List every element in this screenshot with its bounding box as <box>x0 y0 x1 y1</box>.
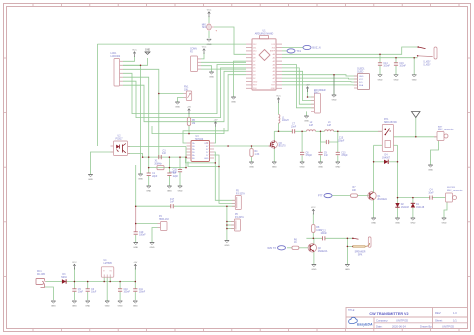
svg-text:D4: D4 <box>253 71 255 73</box>
svg-text:GND: GND <box>378 79 383 81</box>
svg-text:C12: C12 <box>322 230 327 232</box>
capacitor C14 <box>378 63 391 68</box>
svg-text:GND: GND <box>118 306 123 308</box>
wire C6 gnd <box>87 292 89 300</box>
connector DC1 power jack <box>36 271 46 287</box>
svg-text:D2: D2 <box>253 78 255 80</box>
svg-text:D5: D5 <box>253 68 255 70</box>
svg-text:LM7805: LM7805 <box>104 263 113 265</box>
svg-text:2N2222A: 2N2222A <box>318 250 328 253</box>
wire encoder C <box>282 71 314 100</box>
wire D4 line <box>374 161 384 163</box>
svg-text:GND: GND <box>394 79 399 81</box>
wire gnd drop x414 <box>413 58 415 75</box>
svg-text:VCC: VCC <box>311 207 316 209</box>
svg-text:22pF: 22pF <box>173 176 179 178</box>
svg-text:RY1: RY1 <box>384 119 389 121</box>
resistor R8 <box>312 225 323 233</box>
svg-text:GND: GND <box>371 223 376 225</box>
svg-text:C10: C10 <box>124 289 129 291</box>
svg-text:GND: GND <box>271 88 276 90</box>
svg-text:AREF: AREF <box>270 50 276 53</box>
optocoupler U2 PC817 <box>111 136 131 156</box>
svg-text:GND: GND <box>51 306 56 308</box>
ground mic <box>207 39 212 46</box>
svg-text:1/1: 1/1 <box>453 318 457 322</box>
ground C13 <box>335 162 340 169</box>
ground opto <box>88 175 93 182</box>
svg-text:A2: A2 <box>273 60 275 63</box>
wire MCU gnd pin down <box>234 61 247 96</box>
svg-text:RV1: RV1 <box>184 87 189 89</box>
wire jack2 stub3 <box>227 228 235 230</box>
power flag VCC PA <box>276 96 281 104</box>
wire relay left vert <box>373 145 375 162</box>
connector P6 audio jack <box>231 214 244 231</box>
wire VCC to L1 <box>278 103 280 115</box>
svg-text:GND: GND <box>146 191 151 193</box>
connector P5 audio jack <box>232 191 245 210</box>
svg-text:BUZ_N: BUZ_N <box>312 47 320 50</box>
svg-text:100nF: 100nF <box>139 235 146 237</box>
svg-text:D12: D12 <box>253 44 256 46</box>
svg-text:1N4148: 1N4148 <box>401 207 410 209</box>
ground C1 <box>146 186 151 193</box>
wire RV1 to GND <box>178 98 184 102</box>
capacitor C4 <box>428 190 434 200</box>
wire OLED sda line <box>282 84 358 86</box>
svg-text:GND: GND <box>88 179 93 181</box>
wire R7 to Q1 <box>358 195 369 197</box>
svg-text:D11: D11 <box>253 47 256 49</box>
svg-text:100uH: 100uH <box>282 120 289 122</box>
svg-text:D13: D13 <box>272 44 275 46</box>
wire cap C14 tap <box>379 54 381 63</box>
wire C1 drop <box>148 157 150 173</box>
ground C2 <box>167 186 172 193</box>
svg-text:GND: GND <box>412 79 417 81</box>
wire hc00 bottom loop A <box>186 158 216 163</box>
svg-text:GND: GND <box>207 44 212 46</box>
wire dc to D3 <box>46 281 62 283</box>
svg-text:20MHz: 20MHz <box>154 163 162 165</box>
wire J1 pin6 staircase <box>123 68 246 118</box>
svg-text:GND: GND <box>175 107 180 109</box>
svg-text:A6: A6 <box>273 74 275 77</box>
svg-text:C17: C17 <box>170 199 175 201</box>
svg-text:100nF: 100nF <box>124 292 131 294</box>
svg-text:D6: D6 <box>253 64 255 66</box>
power flag +5V main <box>133 262 137 270</box>
IC U3 74HC00 <box>187 136 215 162</box>
svg-text:C15: C15 <box>339 138 344 140</box>
capacitor C20 inline <box>170 169 182 174</box>
ground x140 <box>138 174 143 181</box>
svg-text:1nF: 1nF <box>170 202 175 204</box>
svg-text:GND: GND <box>345 269 350 271</box>
wire shunt C13 <box>337 142 339 152</box>
ground D1 <box>410 218 415 225</box>
wire Q2 emitter <box>313 251 315 264</box>
diode D2 <box>395 203 409 209</box>
wire R4 gnd <box>251 157 253 162</box>
inductor L1 <box>279 115 290 124</box>
display OLED1 <box>354 69 370 90</box>
svg-text:10K: 10K <box>184 89 189 91</box>
ground encoder <box>304 116 309 123</box>
svg-text:Date:: Date: <box>376 324 383 328</box>
wire D1 drop <box>412 198 414 203</box>
svg-text:C19: C19 <box>139 232 144 234</box>
regulator U4 LM7805 <box>101 260 114 277</box>
wire 5V to R5 <box>188 113 190 118</box>
wire encoder 5V <box>308 89 315 98</box>
svg-text:1.0: 1.0 <box>453 311 457 315</box>
wire spk line <box>306 237 322 239</box>
svg-text:W/N TX: W/N TX <box>267 247 276 250</box>
power flag VCC main <box>72 262 77 270</box>
svg-text:UNITPOD: UNITPOD <box>442 324 454 328</box>
svg-text:GND: GND <box>311 269 316 271</box>
ground D2 <box>395 218 400 225</box>
wire P2 pin2 to MCU <box>201 61 246 63</box>
wire C5 tap <box>73 282 75 289</box>
svg-text:1K: 1K <box>294 242 297 244</box>
svg-text:GND: GND <box>72 306 77 308</box>
ground RV1 <box>175 102 180 109</box>
ground C16 <box>394 75 399 82</box>
net flag BUZ <box>303 45 321 49</box>
wire MCU to flag TX1 <box>282 50 287 52</box>
ground C10 <box>118 301 123 308</box>
wire VCC to MIC <box>208 16 210 23</box>
wire audio line2 <box>174 205 236 207</box>
wire MIC to GND <box>208 31 210 38</box>
wire relay coil left <box>374 144 383 146</box>
wire opto out1 <box>128 146 187 148</box>
wire cap C16 gnd <box>395 66 397 75</box>
ground P2 <box>209 72 214 79</box>
svg-text:GND: GND <box>85 306 90 308</box>
capacitor C10 <box>118 289 131 294</box>
power flag +5V encoder <box>306 85 310 93</box>
wire x180 drop lower <box>179 172 181 186</box>
power flag +5V R5 <box>187 107 191 115</box>
svg-text:GND: GND <box>335 167 340 169</box>
power flag VCC P2 <box>202 47 207 55</box>
wire C11 tap <box>134 282 136 289</box>
svg-text:LCD1: LCD1 <box>111 53 118 55</box>
svg-text:1M: 1M <box>192 123 195 125</box>
wire R5 down <box>188 126 190 134</box>
net flag TX1 <box>287 49 302 53</box>
wire hc00 vcc <box>214 127 216 144</box>
svg-text:A4: A4 <box>273 67 275 70</box>
ground C6 <box>85 301 90 308</box>
wire bnc ant gnd <box>431 141 439 165</box>
svg-text:A5: A5 <box>273 70 275 73</box>
wire shunt C9 gnd <box>320 155 322 161</box>
svg-text:1uH: 1uH <box>309 125 314 127</box>
svg-text:1N4007: 1N4007 <box>382 157 391 159</box>
svg-text:GND: GND <box>150 247 155 249</box>
connector ANT BNC <box>434 125 454 140</box>
svg-text:10nF: 10nF <box>428 192 434 194</box>
svg-text:GND: GND <box>204 158 209 160</box>
svg-text:GND: GND <box>272 167 277 169</box>
svg-text:+5V: +5V <box>306 85 310 87</box>
relay RY1 <box>378 119 397 151</box>
svg-text:14: 14 <box>206 143 208 145</box>
wire jack2 stub2 <box>227 224 235 226</box>
svg-text:GND: GND <box>231 102 236 104</box>
svg-text:10uF: 10uF <box>78 292 84 294</box>
svg-text:GND: GND <box>105 306 110 308</box>
svg-text:GND: GND <box>249 167 254 169</box>
wire key rail drop to opto <box>96 44 98 146</box>
svg-text:SRD-05VDC: SRD-05VDC <box>384 122 397 124</box>
svg-text:MK1: MK1 <box>202 24 207 26</box>
svg-text:470pF: 470pF <box>341 155 348 157</box>
ground R4 <box>249 162 254 169</box>
microphone MK1 <box>202 24 218 33</box>
svg-text:D3: D3 <box>253 75 255 77</box>
svg-text:PC817: PC817 <box>115 138 123 140</box>
switch SW1 <box>417 46 437 66</box>
wire I2C SCL rail <box>282 47 418 54</box>
wire spk gnd <box>347 238 353 264</box>
ground C14 <box>378 75 383 82</box>
svg-text:ENC: ENC <box>314 92 319 94</box>
wire C4 to KEY bnc <box>432 197 445 199</box>
ground P4 <box>150 243 155 250</box>
capacitor C3 inline <box>159 150 167 159</box>
svg-text:VCC: VCC <box>359 79 364 81</box>
wire jack3 vert <box>226 206 228 240</box>
wire relay coil right <box>394 144 398 146</box>
capacitor C9 shunt <box>318 152 328 157</box>
wire key rail y44 <box>97 43 246 45</box>
svg-text:KEY/RX: KEY/RX <box>447 187 456 189</box>
wire Q1 emitter <box>373 199 375 217</box>
svg-text:D10: D10 <box>253 51 256 53</box>
wire C10 tap <box>119 282 121 289</box>
wire audio line <box>136 205 171 207</box>
svg-text:SS34: SS34 <box>61 277 67 279</box>
svg-text:LCD1602: LCD1602 <box>111 56 121 58</box>
wire OLED vcc line <box>282 77 358 80</box>
wire xtal row top <box>143 156 186 158</box>
wire xtal right vert <box>185 147 187 168</box>
power flag VCC R8 <box>311 207 316 215</box>
svg-text:3V3: 3V3 <box>272 47 275 49</box>
wire J1 pin3 <box>123 69 159 157</box>
svg-text:EasyEDA: EasyEDA <box>357 322 373 326</box>
svg-text:A1: A1 <box>273 57 275 60</box>
wire x180 drop upper <box>179 157 181 169</box>
svg-text:CONN: CONN <box>190 49 197 51</box>
svg-text:+5V: +5V <box>187 107 191 109</box>
wire 5V tap <box>134 268 136 282</box>
svg-text:Drawn By:: Drawn By: <box>420 324 433 328</box>
svg-text:C20: C20 <box>173 169 178 171</box>
svg-text:100nF: 100nF <box>320 233 327 235</box>
svg-text:C14: C14 <box>383 63 388 65</box>
wire I2C SDA rail <box>282 57 418 59</box>
svg-text:A3: A3 <box>273 63 275 66</box>
wire reg in pin <box>103 277 105 281</box>
wire P4 pin1 <box>136 223 158 225</box>
svg-text:100pF: 100pF <box>338 140 345 142</box>
IC U1 Arduino Nano <box>246 29 282 90</box>
svg-text:100nF: 100nF <box>139 292 146 294</box>
transistor Q3 BS170 <box>269 140 287 148</box>
svg-text:1.3K: 1.3K <box>255 154 260 156</box>
svg-text:VCC: VCC <box>276 96 281 98</box>
wire relay right vert <box>397 145 399 197</box>
wire key line <box>398 197 430 199</box>
wire antenna drop <box>415 118 417 137</box>
power flag VCC J1 <box>132 50 137 58</box>
svg-text:DC-005: DC-005 <box>37 274 46 276</box>
wire D4 line2 <box>389 161 398 163</box>
wire shunt C13 gnd <box>337 155 339 161</box>
wire C15 right <box>329 131 338 142</box>
svg-text:GND: GND <box>133 306 138 308</box>
wire L2 to L3 <box>316 130 325 132</box>
ground P5 chain <box>224 241 229 248</box>
svg-text:ANT: ANT <box>438 125 443 128</box>
wire shunt C8 <box>301 131 303 152</box>
wire encoder gnd <box>306 111 308 116</box>
ground C11 <box>133 301 138 308</box>
ground x414 <box>412 75 417 82</box>
wire C7 to L2 <box>295 130 307 132</box>
ground speaker <box>345 265 350 272</box>
svg-text:VCC: VCC <box>132 50 137 52</box>
svg-text:1N4148: 1N4148 <box>416 207 425 209</box>
wire OLED gnd tap <box>333 75 335 95</box>
ground KEY <box>442 218 447 225</box>
wire C10 gnd <box>119 292 121 300</box>
diode D4 <box>382 155 391 165</box>
antenna symbol <box>412 112 421 118</box>
svg-text:100nF: 100nF <box>383 66 390 68</box>
net flag WNTX <box>267 246 285 250</box>
svg-text:1uH: 1uH <box>327 125 332 127</box>
connector J1 LCD <box>111 53 124 86</box>
wire rail y133 <box>152 126 224 134</box>
power flag VCC mic <box>207 10 212 18</box>
svg-text:S_KEY: S_KEY <box>423 62 431 64</box>
wire PTT to R7 <box>332 195 351 197</box>
ground OLED <box>332 95 337 102</box>
wire GND to J1 pin2 <box>123 58 148 65</box>
svg-text:GND: GND <box>395 223 400 225</box>
svg-text:10uF: 10uF <box>91 292 97 294</box>
svg-text:Sheet:: Sheet: <box>435 318 443 322</box>
svg-text:GND: GND <box>442 223 447 225</box>
title block <box>346 308 468 329</box>
svg-text:100nF: 100nF <box>399 66 406 68</box>
svg-text:A7: A7 <box>273 77 275 80</box>
ground C8 <box>300 162 305 169</box>
ground C9 <box>318 162 323 169</box>
wire dc gnd <box>44 287 53 300</box>
wire cap C14 gnd <box>379 66 381 75</box>
svg-text:D8: D8 <box>253 58 255 60</box>
svg-text:GND: GND <box>410 223 415 225</box>
diode D3 <box>61 274 67 284</box>
ground Q3 <box>272 162 277 169</box>
wire jack2 stub1 <box>227 221 235 223</box>
svg-text:A0: A0 <box>273 53 275 56</box>
wire shunt C8 gnd <box>301 155 303 161</box>
ground C19 <box>133 243 138 250</box>
svg-text:74HC00: 74HC00 <box>195 139 204 141</box>
wire C2 drop <box>168 157 170 173</box>
wire VCC tap <box>73 268 75 282</box>
wire J1 gnd rail <box>123 64 141 66</box>
wire key bnc gnd <box>444 202 447 218</box>
wire reg out pin <box>109 277 111 281</box>
svg-text:REV:: REV: <box>435 311 441 315</box>
capacitor C8 shunt <box>300 152 313 157</box>
svg-text:22pF: 22pF <box>152 176 158 178</box>
speaker SPK <box>352 237 371 256</box>
wire hc00 bottom loop B <box>188 162 219 167</box>
capacitor C5 <box>72 289 83 294</box>
svg-text:HDR-1X2: HDR-1X2 <box>159 219 170 221</box>
connector P2 <box>190 49 201 72</box>
inductor L3 <box>325 122 334 131</box>
resistor R4 <box>250 149 260 157</box>
svg-text:10K: 10K <box>352 190 357 192</box>
wire L3 to relay <box>334 130 383 132</box>
svg-text:+5V: +5V <box>133 262 137 264</box>
svg-text:D9: D9 <box>253 54 255 56</box>
rotary encoder ENC <box>311 90 326 113</box>
diode D1 <box>411 203 425 209</box>
svg-text:UNITPOD: UNITPOD <box>396 318 408 322</box>
svg-text:VCC: VCC <box>202 47 207 49</box>
wire VCC to J1 pin1 <box>123 57 135 62</box>
wire OLED scl line <box>282 81 358 84</box>
ground Q1 <box>371 218 376 225</box>
wire R8 down <box>312 233 314 239</box>
svg-text:2N2222A: 2N2222A <box>377 198 387 201</box>
svg-text:MIC: MIC <box>202 27 207 29</box>
svg-text:GND: GND <box>253 81 258 83</box>
svg-text:CW TRANSMITTER V2: CW TRANSMITTER V2 <box>369 312 408 316</box>
wire opto out2 <box>128 154 143 158</box>
svg-text:Company:: Company: <box>376 318 389 322</box>
wire shunt C9 <box>320 131 322 152</box>
svg-text:SPEAKER: SPEAKER <box>355 251 366 254</box>
crystal X1 <box>154 161 164 170</box>
svg-text:BNC_connector: BNC_connector <box>438 128 454 131</box>
capacitor C17 inline <box>170 199 175 208</box>
capacitor C13 shunt <box>336 152 349 157</box>
svg-text:GND: GND <box>209 77 214 79</box>
svg-text:2020-06-24: 2020-06-24 <box>392 324 406 328</box>
wire D1 gnd <box>412 208 414 218</box>
svg-text:BS170: BS170 <box>279 146 287 148</box>
wire power rail <box>66 281 135 283</box>
transistor Q2 2N2222A <box>308 244 328 253</box>
wire WNTX to R6 <box>287 247 292 249</box>
svg-text:GND: GND <box>145 49 151 52</box>
